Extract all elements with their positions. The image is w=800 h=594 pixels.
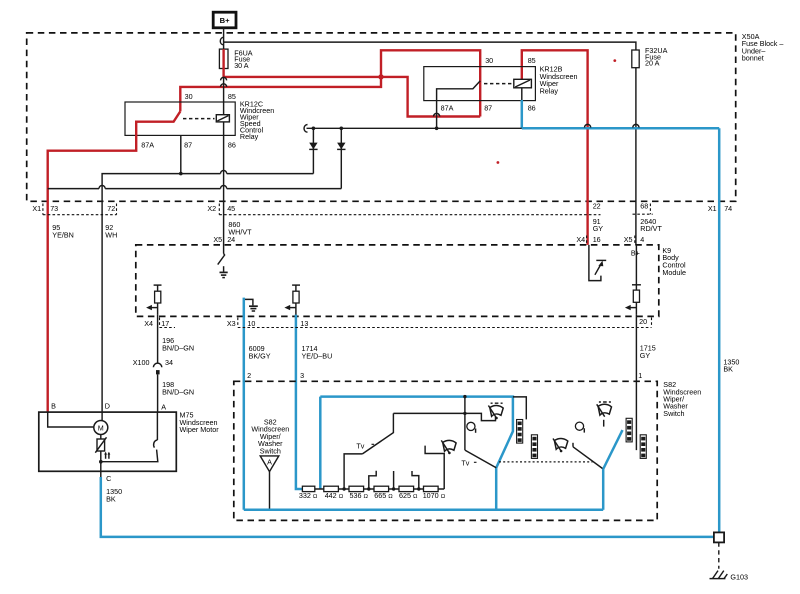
svg-text:RD/VT: RD/VT — [640, 224, 662, 233]
wire blue common rail bottom of switch — [244, 509, 603, 512]
svg-text:Tv: Tv — [356, 441, 364, 450]
wire 1350 BK motor C stub — [100, 471, 102, 478]
svg-text:X3: X3 — [227, 319, 236, 328]
wire KR12C pin86 to X2-45 — [223, 122, 225, 254]
label S82 left block — [251, 417, 289, 455]
BCM internal output driver X4-17 — [146, 285, 161, 315]
section2 moving arm black — [573, 447, 603, 469]
svg-text:BN/D–GN: BN/D–GN — [162, 388, 194, 397]
label 196 BN/D-GN — [162, 336, 194, 352]
wire blue speed common feed horizontal — [320, 397, 513, 510]
icon wiper fan top section2 — [597, 402, 612, 417]
resistor R332 — [302, 486, 314, 491]
comb contact C4 — [640, 435, 646, 459]
junction splice dot — [378, 74, 383, 79]
svg-text:BK/GY: BK/GY — [249, 352, 271, 361]
svg-text:13: 13 — [300, 319, 308, 328]
svg-text:Module: Module — [662, 268, 686, 277]
value labels 332 442 536 665 625 1070 ohm — [299, 491, 446, 500]
hop arc park rail over WH wire — [99, 186, 105, 189]
comb contact C1 — [517, 420, 523, 444]
wire 86 blue drop — [521, 100, 524, 128]
resistor R625 — [399, 486, 414, 491]
chain node dots — [342, 487, 420, 490]
label 68 + tick — [633, 201, 653, 214]
svg-text:X4: X4 — [144, 319, 153, 328]
BCM internal B+ dropping resistor — [632, 245, 641, 315]
tap A to selector arm — [344, 454, 362, 489]
dashed lead to ground — [718, 542, 720, 568]
wire sense line black (diodes to KR12B 86) — [307, 127, 522, 129]
label 1350 BK right side — [723, 357, 739, 373]
wire run rail (pin87 to WH drop) with hop gap — [102, 174, 313, 413]
section2 arm fixed tick — [572, 443, 574, 447]
wire sense line blue to right drop — [522, 127, 719, 130]
label 92 WH — [105, 223, 117, 239]
artifact red dot right — [613, 59, 616, 62]
svg-text:30: 30 — [185, 92, 193, 101]
svg-text:73: 73 — [50, 204, 58, 213]
label X2 45 — [207, 204, 235, 213]
connector hook at fuse output junction — [221, 77, 227, 80]
park contact hook — [154, 440, 158, 448]
contact tick below top icon section2 — [603, 420, 605, 427]
resistor chain rail — [315, 488, 444, 490]
svg-text:X5: X5 — [624, 235, 633, 244]
label Tv section1 arm — [461, 459, 476, 468]
svg-text:YE/BN: YE/BN — [52, 230, 74, 239]
wire red F6UA output down to junction level — [224, 69, 381, 77]
svg-text:BK: BK — [106, 495, 116, 504]
wire B+ hook to F6UA top — [223, 42, 225, 49]
svg-text:86: 86 — [528, 104, 536, 113]
wire park rail (red node to D2) with hop gaps — [48, 188, 342, 190]
wire 1715 GY BCM pin20 to S82 pin1 — [635, 315, 637, 451]
svg-text:X2: X2 — [207, 204, 216, 213]
svg-text:X4: X4 — [576, 235, 585, 244]
relay KR12C box — [125, 102, 235, 135]
KR12B switch arm to 87A (black) — [437, 81, 481, 128]
svg-text:45: 45 — [227, 204, 235, 213]
motor M armature — [94, 421, 108, 435]
wire motor C to box edge — [100, 462, 102, 472]
wire B+ rail to F32UA — [224, 42, 636, 50]
wire 196 BN/D-GN X4-17 to X100 — [157, 315, 159, 364]
hop arc park rail over 86 wire — [221, 186, 227, 189]
hop arc red 87-link over 87A wire — [434, 113, 440, 116]
svg-text:Switch: Switch — [260, 447, 281, 456]
label X4 17 + ticks — [144, 318, 175, 328]
comb contact C2 — [531, 435, 537, 459]
icon wash symbol O| section1 — [467, 422, 476, 433]
svg-text:bonnet: bonnet — [742, 54, 764, 63]
svg-text:YE/D–BU: YE/D–BU — [302, 352, 333, 361]
BCM internal ground for X3-10 — [244, 299, 258, 311]
label 860 WH/VT — [228, 220, 252, 236]
junction dot 87A on ground-sense line — [435, 127, 439, 131]
motor M75 box — [39, 412, 177, 471]
label 1715 GY — [640, 344, 656, 360]
wire blue chain elbow to speed feed — [319, 397, 322, 489]
diode D1 — [309, 127, 317, 174]
BCM internal wiper-relay driver switch symbol — [589, 245, 606, 281]
label M75 Windscreen Wiper Motor — [180, 411, 220, 435]
tap C open contact — [393, 471, 395, 489]
hop arc black over red at 91GY — [585, 124, 591, 127]
label S82 right side — [663, 380, 701, 418]
diode D2 — [337, 127, 345, 189]
svg-text:X1: X1 — [708, 204, 717, 213]
wire KR12C pin87 down to run rail — [180, 135, 182, 173]
svg-text:GY: GY — [593, 224, 604, 233]
icon wiper fan left section2 — [553, 438, 568, 452]
label X3 10 13 + ticks and sub-dash — [227, 318, 652, 328]
tap B open contact — [369, 471, 376, 489]
hop arc black over 2640 wire — [633, 124, 639, 127]
BCM internal output driver X3-13 — [284, 285, 300, 316]
label X5 24 row — [213, 235, 235, 244]
label 20 — [639, 317, 647, 326]
junction dots stem — [463, 395, 466, 415]
svg-text:BN/D–GN: BN/D–GN — [162, 343, 194, 352]
label 6009 BK/GY — [249, 344, 271, 360]
svg-text:24: 24 — [227, 235, 235, 244]
svg-text:C: C — [106, 474, 111, 483]
wire motor B internal link — [48, 412, 94, 427]
icon wash symbol O| section2 — [575, 422, 584, 433]
svg-text:A: A — [161, 403, 166, 412]
label 1714 YE/D-BU — [302, 344, 333, 360]
label 2640 RD/VT — [640, 217, 662, 233]
svg-text:Relay: Relay — [540, 86, 559, 95]
label 1350 BK motor side — [106, 487, 122, 503]
svg-text:72: 72 — [107, 204, 115, 213]
wire blue 1714 from X3-13 to resistor chain — [296, 315, 303, 489]
KR12B coil — [514, 79, 532, 88]
wire 2640 feed: F32UA down to BCM X5-4 — [635, 68, 637, 245]
comb contact C3 — [626, 418, 632, 442]
resistor R665 — [374, 486, 389, 491]
label 91 GY — [593, 217, 604, 233]
svg-text:87A: 87A — [141, 140, 154, 149]
washer pump triangle A — [260, 456, 279, 510]
svg-text:2: 2 — [247, 371, 251, 380]
svg-text:WH: WH — [105, 230, 117, 239]
wire 198 BN/D-GN X100 to motor pin A — [157, 374, 159, 412]
svg-text:Relay: Relay — [240, 132, 259, 141]
wire blue 6009 from internal ground to S82 pin2 — [243, 298, 246, 510]
svg-text:87A: 87A — [441, 104, 454, 113]
label 198 BN/D-GN — [162, 380, 194, 396]
svg-text:30 A: 30 A — [234, 61, 249, 70]
label 95 YE/BN — [52, 223, 74, 239]
svg-text:86: 86 — [228, 140, 236, 149]
svg-text:X100: X100 — [133, 358, 150, 367]
module K9 body control module dashed box — [136, 245, 659, 317]
svg-text:4: 4 — [640, 235, 644, 244]
resistor R442 — [324, 486, 339, 491]
resistor R1070 — [424, 486, 439, 491]
artifact red dot left — [497, 161, 500, 164]
label X1 73 — [32, 204, 58, 213]
wire 92 WH motor D internal — [101, 412, 103, 420]
junction dot motor common — [99, 460, 103, 464]
svg-text:3: 3 — [300, 371, 304, 380]
internal ground X5-24 — [220, 266, 228, 277]
section2 arm blue to comb3 — [603, 430, 622, 469]
right end contact of chain — [425, 446, 444, 489]
label F32UA Fuse 20 A — [645, 46, 668, 68]
wire KR12C pin85 from fuse junction — [223, 77, 225, 115]
svg-text:17: 17 — [161, 319, 169, 328]
wire red junction up-over to KR12B pin30 — [381, 50, 480, 116]
KR12C coil — [216, 115, 229, 122]
fuse block X50A dashed box — [27, 33, 736, 201]
svg-text:B+: B+ — [631, 249, 640, 258]
section1 off-position ladder — [393, 413, 495, 420]
label F6UA Fuse 30 A — [234, 48, 253, 70]
KR12B pin labels 30 85 87A 87 86 — [441, 56, 536, 113]
wire B+ down into fuse block — [223, 28, 225, 42]
hop arc rail over 86 wire — [221, 171, 227, 174]
label Tv selector — [356, 441, 374, 450]
connector hook left end of sense line — [304, 125, 307, 133]
svg-text:20 A: 20 A — [645, 59, 660, 68]
svg-text:20: 20 — [639, 317, 647, 326]
icon wiper fan top section1 — [488, 403, 503, 419]
svg-text:30: 30 — [485, 56, 493, 65]
svg-text:22: 22 — [593, 201, 601, 210]
KR12C pin labels 30 85 87A 87 86 — [141, 92, 236, 149]
svg-text:Switch: Switch — [663, 409, 684, 418]
wire 1350 BK blue run to G103 — [101, 477, 714, 537]
connector hook on B+ wire — [220, 37, 223, 45]
KR12B coil actuate dashed link — [484, 83, 513, 85]
X5-24 separable joint diagonal — [218, 254, 225, 265]
svg-text:D: D — [105, 401, 110, 410]
svg-text:85: 85 — [528, 56, 536, 65]
svg-text:B: B — [51, 401, 56, 410]
section1 feed stem from blue — [464, 397, 466, 451]
wire blue 1350 right-side drop to G103 joint — [718, 128, 721, 533]
wire red KR12B pin85 coil feed from BCM — [522, 50, 588, 245]
tap D open contact — [412, 471, 419, 489]
ground symbol G103 — [710, 571, 728, 579]
svg-text:34: 34 — [165, 358, 173, 367]
mechanical link dotted line — [499, 461, 593, 463]
BCM internal output arrow to pin20 — [625, 305, 637, 310]
wire red KR12C pin30 feed rail — [180, 77, 381, 112]
motor thermal protector — [95, 435, 106, 462]
svg-text:GY: GY — [640, 351, 651, 360]
svg-text:M: M — [98, 426, 104, 433]
svg-text:G103: G103 — [730, 572, 748, 581]
svg-text:Wiper Motor: Wiper Motor — [180, 425, 220, 434]
svg-text:X5: X5 — [213, 235, 222, 244]
label KR12C Windcreen Wiper Speed Control Relay — [240, 100, 274, 142]
junction dot pin87 rail — [179, 172, 183, 176]
svg-text:85: 85 — [228, 92, 236, 101]
relay KR12B box — [424, 67, 536, 101]
section2 blue drop to rail — [602, 469, 605, 510]
ground joint box G103 — [714, 532, 724, 542]
switch S82 dashed box — [234, 381, 657, 520]
resistor R536 — [349, 486, 364, 491]
svg-text:74: 74 — [724, 204, 732, 213]
fuse F6UA — [219, 49, 228, 68]
svg-text:BK: BK — [723, 365, 733, 374]
svg-text:16: 16 — [593, 235, 601, 244]
black link blue corner to comb1 — [513, 397, 526, 420]
svg-text:A: A — [267, 457, 272, 466]
svg-text:68: 68 — [640, 201, 648, 210]
KR12C coil actuate dashed link — [183, 118, 215, 120]
svg-text:Tv: Tv — [461, 459, 469, 468]
fuse F32UA — [632, 50, 639, 68]
selector arm diagonal — [362, 413, 393, 454]
label X50A Fuse Block - Under-bonnet — [742, 32, 784, 63]
wire KR12B pin86 coil to blue node — [521, 88, 523, 101]
svg-text:87: 87 — [184, 140, 192, 149]
wire motor A park contact — [156, 412, 158, 440]
svg-text:B+: B+ — [220, 16, 230, 25]
connector X1 row ticks and sub-dash — [43, 204, 117, 215]
section1 moving arm — [465, 450, 496, 468]
hop arc red rail over pin85 wire — [221, 84, 227, 87]
svg-text:10: 10 — [247, 319, 255, 328]
label X4 16 — [576, 235, 600, 245]
in-line connector X100 — [133, 358, 173, 375]
thermal arrows marks — [104, 452, 110, 459]
svg-text:X1: X1 — [32, 204, 41, 213]
icon wiper fan left section1 — [441, 440, 456, 454]
svg-text:1: 1 — [638, 371, 642, 380]
node B+ battery feed box — [213, 12, 236, 28]
svg-text:87: 87 — [484, 104, 492, 113]
wire red junction to KR12B pin87 — [381, 77, 480, 117]
label X5 4 — [624, 235, 645, 245]
label KR12B Windscreen Wiper Relay — [540, 65, 578, 96]
label X1 74 right — [708, 204, 732, 213]
KR12C switch arm to 87A (red) — [48, 111, 181, 412]
connector X2 row ticks and sub-dash — [219, 204, 600, 215]
park contact lower blade — [101, 450, 158, 462]
label K9 Body Control Module — [662, 246, 686, 277]
